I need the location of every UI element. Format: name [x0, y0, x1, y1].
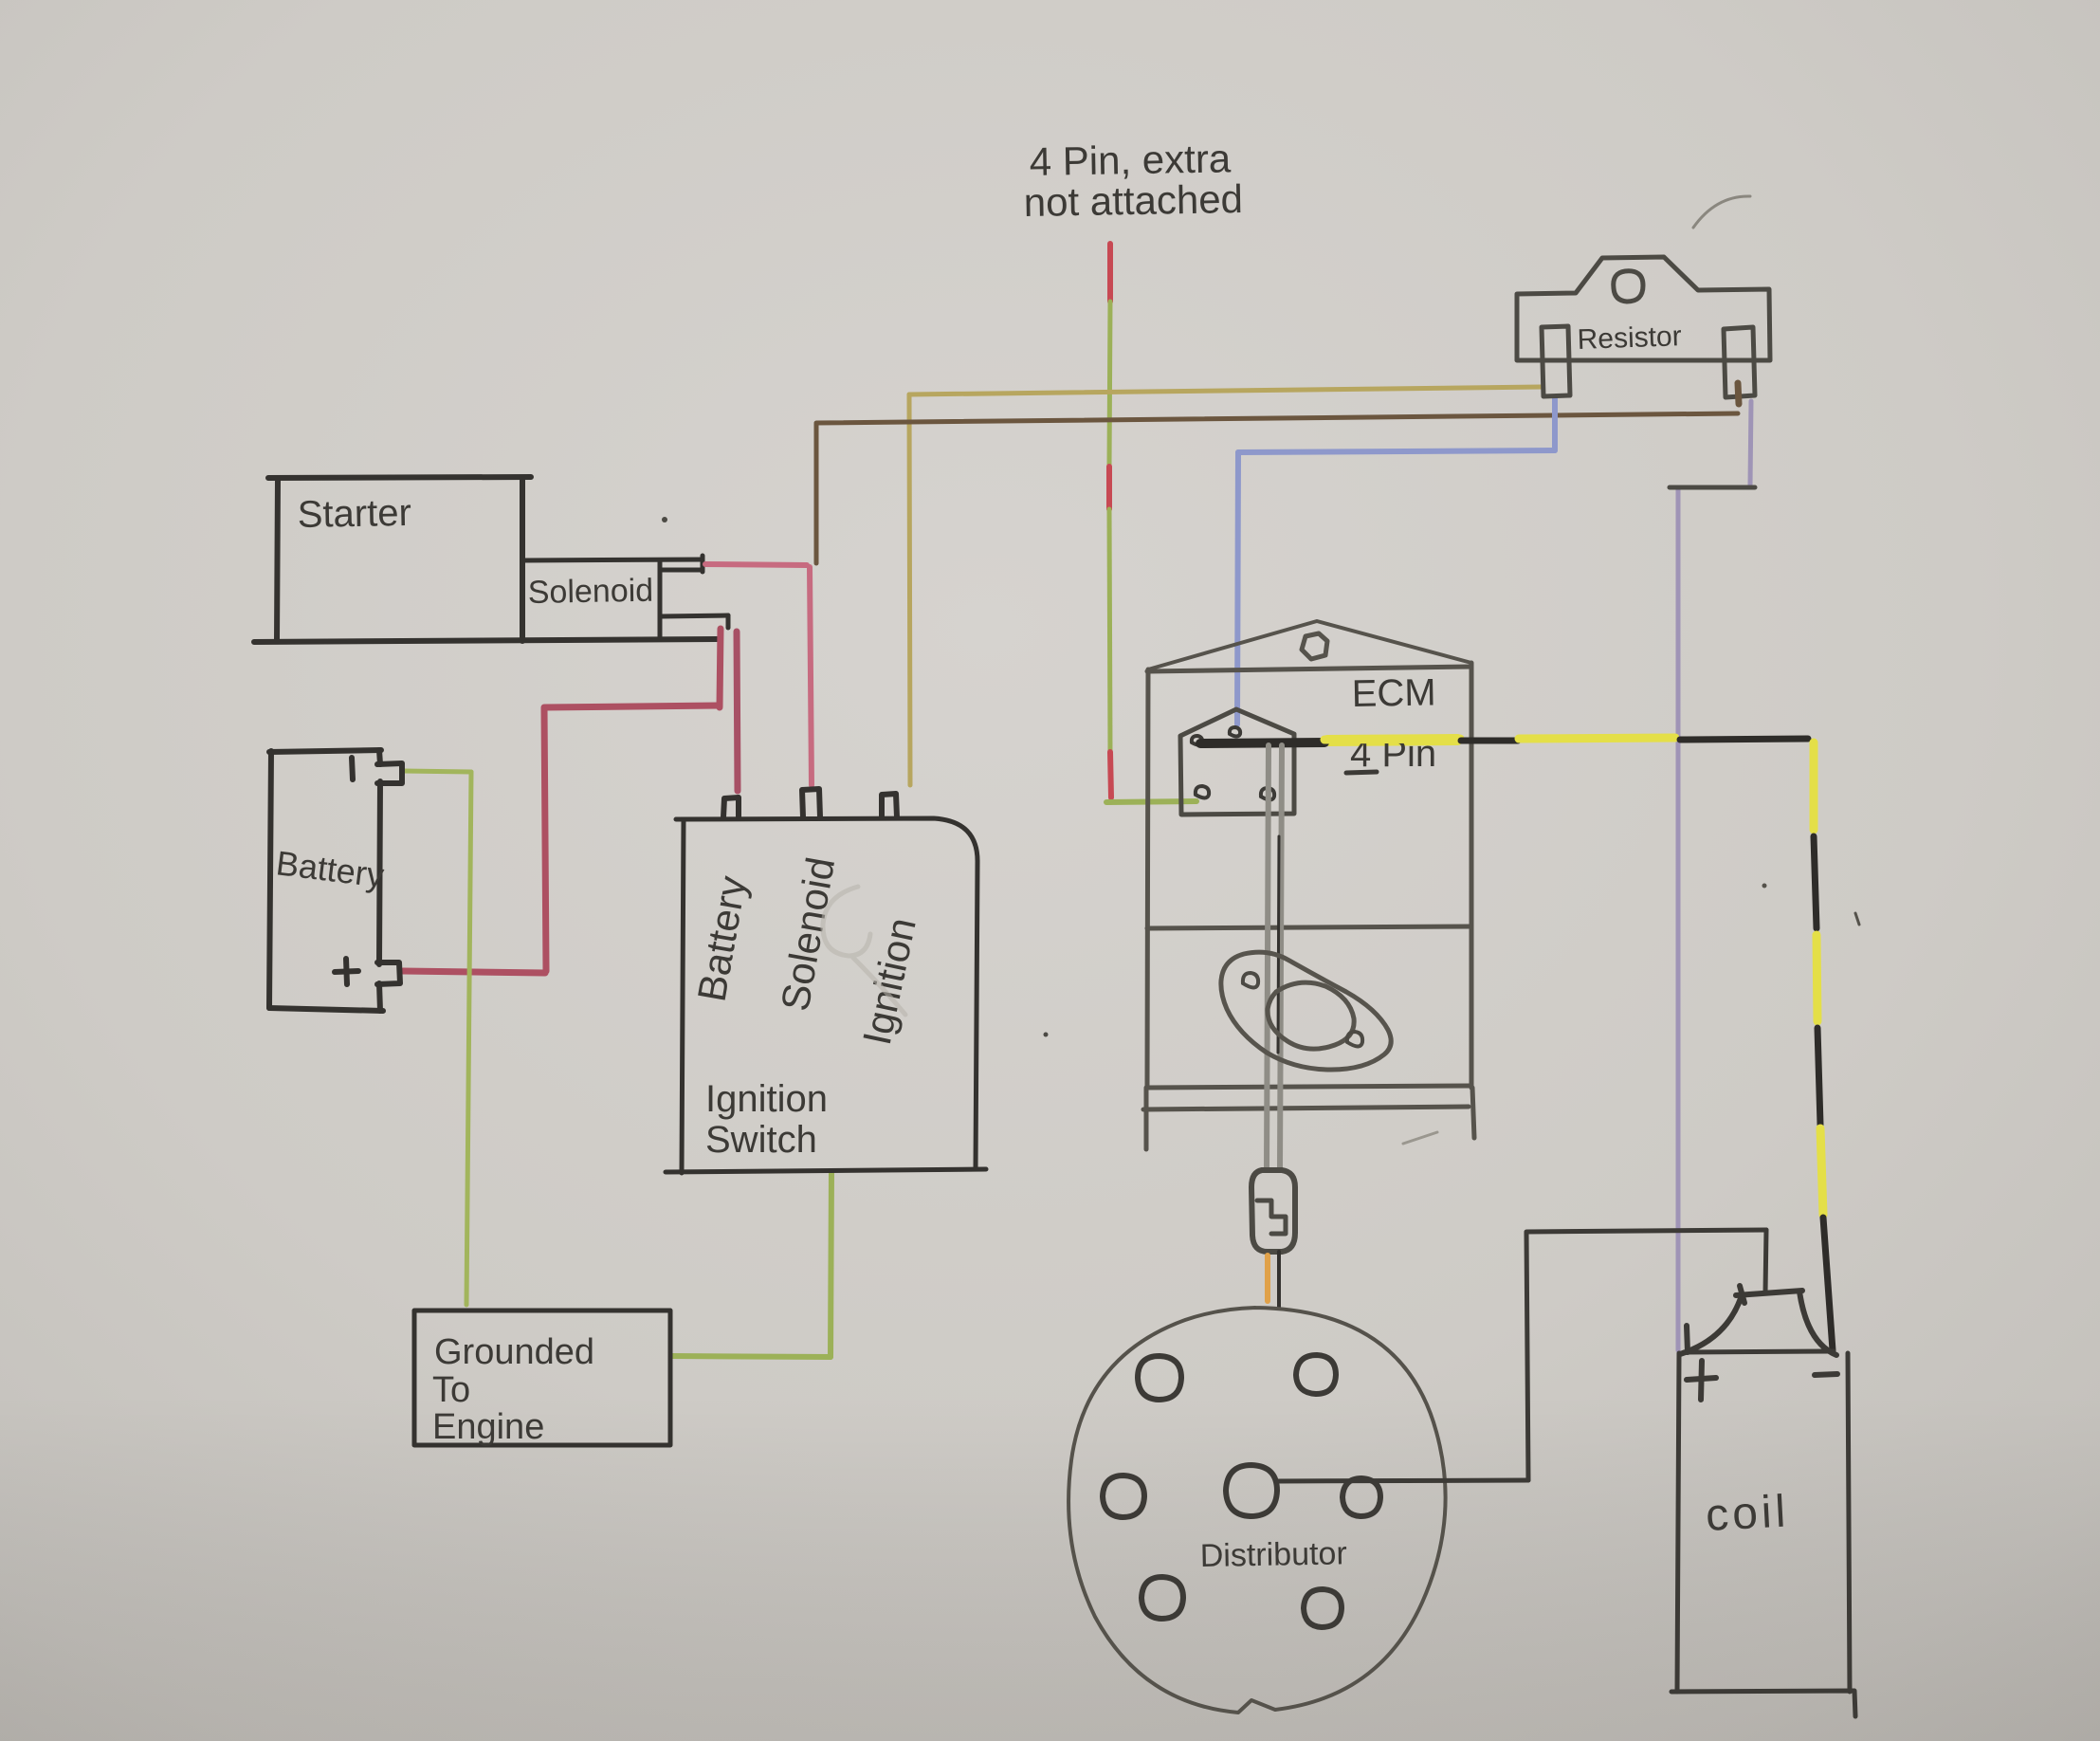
ECM box	[1143, 663, 1474, 1149]
wire purple resistor to coil	[1678, 401, 1751, 1350]
coil plus terminal	[1687, 1326, 1716, 1400]
svg-text:coil: coil	[1705, 1486, 1791, 1541]
distributor hole left	[1103, 1475, 1144, 1517]
resistor right terminal	[1724, 327, 1755, 397]
paper speck 2	[1044, 1033, 1049, 1037]
svg-text:Ignition: Ignition	[705, 1078, 828, 1120]
coupler zigzag	[1257, 1200, 1286, 1234]
ignition switch box	[666, 818, 986, 1173]
4 underline	[1346, 772, 1377, 773]
connector pin bottom-left	[1196, 786, 1209, 798]
wire pink solenoid to ignition switch	[705, 564, 812, 785]
distributor body circle	[1068, 1308, 1446, 1713]
ECM gasket inner	[1268, 982, 1354, 1049]
wire 4pin extra vertical green segment	[1109, 302, 1110, 467]
wire dark red solenoid to switch battery pin	[737, 632, 738, 791]
ignition switch solenoid pin	[802, 789, 820, 817]
resistor right terminal brown tick	[1738, 383, 1739, 404]
shaft coupler	[1251, 1170, 1295, 1252]
distributor hole top-right	[1296, 1355, 1336, 1394]
distributor hole center	[1226, 1465, 1277, 1516]
svg-text:Switch: Switch	[705, 1119, 817, 1161]
battery positive terminal tab	[335, 959, 400, 984]
svg-text:Engine: Engine	[432, 1407, 544, 1447]
shaft lower black line	[1277, 1252, 1281, 1307]
grounded to engine box	[414, 1310, 670, 1445]
wire tan ignition pin to resistor	[909, 387, 1542, 785]
ECM pediment hex hole	[1302, 633, 1327, 659]
wire 4pin extra vertical red segment mid	[1106, 467, 1112, 509]
battery negative terminal tab	[352, 758, 402, 783]
svg-text:Resistor: Resistor	[1577, 321, 1682, 356]
wire 4pin extra vertical red segment bottom	[1110, 752, 1111, 797]
orange wire segment	[1265, 1255, 1270, 1301]
ECM 4 pin connector pentagon	[1180, 709, 1294, 815]
paper speck 4	[1855, 913, 1859, 925]
svg-text:Distributor: Distributor	[1199, 1535, 1347, 1574]
stray pencil arc top right	[1693, 196, 1750, 228]
wire blue resistor to ECM connector	[1237, 398, 1555, 724]
svg-text:Solenoid: Solenoid	[527, 573, 653, 611]
distributor hole bottom-left	[1141, 1577, 1183, 1619]
distributor hole bottom-right	[1304, 1589, 1342, 1627]
paper speck 1	[662, 517, 667, 522]
wire purple jog dark line	[1670, 486, 1755, 490]
wire yellow vertical to coil	[1814, 742, 1833, 1350]
solenoid box	[522, 556, 728, 637]
distributor shaft dark line	[1278, 836, 1279, 1053]
note 4 pin extra not attached	[1023, 136, 1243, 225]
svg-text:Grounded: Grounded	[434, 1332, 594, 1372]
ignition switch label	[705, 1078, 828, 1161]
gasket bolt hole left	[1243, 973, 1258, 988]
resistor R outline	[1517, 257, 1770, 360]
wire 4pin extra vertical red segment top	[1107, 244, 1113, 302]
gasket bolt hole right	[1347, 1032, 1362, 1047]
wire brown solenoid junction to resistor	[816, 413, 1738, 563]
ignition switch battery pin	[723, 797, 739, 817]
paper speck 3	[1762, 884, 1767, 889]
svg-text:not attached: not attached	[1023, 176, 1243, 225]
ECM pediment	[1148, 621, 1471, 669]
wire distributor to coil HT lead	[1277, 1230, 1766, 1481]
connector thick bar	[1200, 742, 1324, 743]
distributor shaft gray rod	[1267, 745, 1282, 1168]
distributor hole top-left	[1138, 1356, 1181, 1400]
svg-text:ECM: ECM	[1351, 671, 1436, 715]
svg-text:To: To	[432, 1370, 470, 1410]
connector pin top-mid	[1230, 727, 1240, 737]
resistor left terminal	[1542, 326, 1570, 396]
ECM gasket outer	[1221, 952, 1391, 1070]
battery box	[269, 750, 383, 1011]
faint pencil scribble on switch	[823, 887, 905, 1015]
wire yellow ECM to coil horizontal	[1324, 738, 1808, 741]
wire dark red battery+ to solenoid	[403, 629, 721, 973]
yellow highlight under 4 Pin	[1327, 740, 1457, 741]
starter box	[254, 477, 717, 642]
resistor mounting hole	[1614, 271, 1643, 302]
coil body	[1671, 1351, 1855, 1716]
connector pin bottom-right	[1261, 788, 1274, 800]
svg-text:Starter: Starter	[297, 492, 411, 536]
wire green ignition switch to ground box	[672, 1173, 831, 1357]
coil cap	[1680, 1286, 1836, 1355]
wire green battery- down to ground	[403, 771, 471, 1305]
ignition switch ignition pin	[882, 794, 897, 817]
connector pin top-left	[1192, 736, 1202, 745]
coil minus terminal	[1815, 1374, 1837, 1375]
grounded to engine label	[432, 1332, 594, 1447]
wire 4pin extra vertical green segment 2	[1109, 509, 1110, 752]
distributor hole right	[1342, 1478, 1380, 1516]
wire green horizontal to ECM connector	[1106, 801, 1196, 802]
faint pencil mark right of ECM	[1403, 1132, 1437, 1144]
